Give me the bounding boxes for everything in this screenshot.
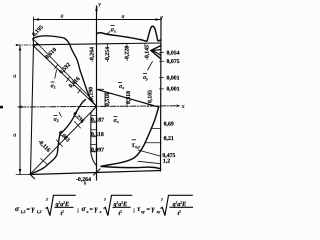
svg-text:q2a2E: q2a2E	[173, 201, 187, 208]
svg-text:xy: xy	[140, 209, 145, 214]
svg-text:q2a2E: q2a2E	[56, 201, 70, 208]
svg-text:0,118: 0,118	[91, 132, 104, 138]
svg-text:0,69: 0,69	[164, 121, 174, 127]
svg-text:a: a	[122, 14, 125, 20]
svg-text:=: =	[147, 207, 151, 213]
svg-text:0,105: 0,105	[147, 90, 153, 103]
svg-text:0,187: 0,187	[91, 117, 104, 123]
svg-text:1,2: 1,2	[37, 209, 42, 214]
svg-text:y: y	[97, 1, 101, 8]
svg-text:a: a	[13, 74, 16, 80]
svg-text:=: =	[90, 207, 94, 213]
svg-text:xy: xy	[156, 209, 161, 214]
svg-text:1,2: 1,2	[21, 209, 26, 214]
svg-text:-0,254: -0,254	[105, 47, 111, 62]
svg-text:0,001: 0,001	[167, 76, 180, 82]
svg-text:1,2: 1,2	[163, 158, 170, 164]
svg-text:a: a	[61, 13, 64, 19]
svg-text:0,001: 0,001	[167, 87, 180, 93]
svg-text:3: 3	[160, 197, 163, 201]
svg-text:0,318: 0,318	[126, 91, 132, 104]
svg-text:0,21: 0,21	[164, 136, 174, 142]
svg-text:σx: σx	[119, 84, 124, 90]
svg-text:x: x	[86, 209, 89, 214]
svg-text:x: x	[99, 209, 102, 214]
svg-text:0,097: 0,097	[91, 147, 104, 153]
svg-text:=: =	[27, 207, 31, 213]
svg-text:q2a2E: q2a2E	[114, 201, 128, 208]
svg-text:-0,264: -0,264	[90, 47, 96, 62]
svg-text:σx: σx	[114, 118, 119, 124]
svg-text:σ2: σ2	[54, 117, 59, 123]
svg-text:-0,228: -0,228	[125, 46, 131, 61]
svg-text:a: a	[13, 133, 16, 139]
svg-text:σ1: σ1	[51, 84, 56, 90]
svg-text:;: ;	[77, 207, 79, 214]
svg-text:0,075: 0,075	[167, 59, 180, 65]
svg-text:3: 3	[45, 197, 48, 201]
svg-text:σy: σy	[143, 75, 148, 81]
svg-text:0,190: 0,190	[89, 87, 95, 100]
svg-text:-0,145: -0,145	[145, 45, 151, 60]
svg-text:0,054: 0,054	[167, 50, 180, 56]
svg-text:0,510: 0,510	[105, 93, 111, 106]
svg-text:-0,264: -0,264	[76, 177, 91, 183]
svg-text:3: 3	[103, 197, 106, 201]
svg-text:;: ;	[133, 207, 135, 214]
svg-text:σx: σx	[111, 27, 117, 34]
